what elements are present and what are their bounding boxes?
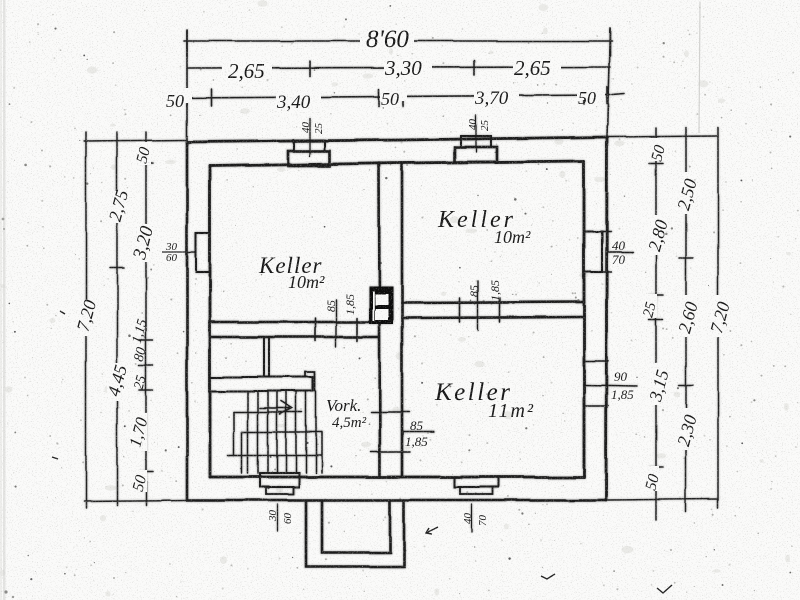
window W4 right outer wall xyxy=(584,232,602,272)
extension verticals left & right through dim rows xyxy=(186,30,188,142)
dim separator 40/70 right window xyxy=(607,251,633,253)
window W5 bottom wall right (40/70) xyxy=(454,477,499,487)
stair treads xyxy=(247,391,249,473)
wall: right outer face xyxy=(606,137,607,500)
stair direction arrow xyxy=(260,407,290,409)
door jambs in central wall near Vork xyxy=(371,411,410,413)
dim row2 line 2,65/3,30/2,65 xyxy=(187,67,610,68)
paper gaps behind dim texts xyxy=(77,28,726,492)
window W2 big box xyxy=(288,151,330,166)
window W1 in left outer wall xyxy=(196,233,210,272)
wall: partition between right rooms, top face xyxy=(402,302,584,303)
right extension line bottom xyxy=(608,499,718,500)
window W3 centerline xyxy=(475,115,477,152)
scanner edge streak xyxy=(3,0,6,600)
dim separator 40/70 bottom window xyxy=(471,504,473,532)
stair: landing bar xyxy=(210,377,313,391)
dim separator line for 85/1,85 (central door) xyxy=(402,431,434,433)
wall: top outer face xyxy=(187,137,607,142)
left dim col 50/3,20/... xyxy=(145,132,147,505)
window W3 top wall right: outer sill xyxy=(461,136,491,147)
wall: left inner face xyxy=(209,166,212,477)
right dim col 2,50/2,60/2,30 xyxy=(685,128,687,512)
dim row1 line 8'60 xyxy=(184,40,612,42)
stray scanner marks xyxy=(52,311,672,593)
wall: partition under left Keller room, top face xyxy=(210,321,371,324)
dim separator line for 85/1,85 label (left door) xyxy=(335,300,337,347)
left extension line bottom xyxy=(84,500,187,501)
window W2 top wall left: outer sill xyxy=(294,140,325,151)
door jamb ticks in left partition xyxy=(314,318,316,341)
bottom exterior stair well: inner U xyxy=(322,500,390,553)
wall: left outer face xyxy=(186,142,189,500)
wall: right inner face xyxy=(583,161,586,477)
window W2 centerline xyxy=(309,118,311,156)
chimney solid black xyxy=(369,286,393,324)
window W3 big box xyxy=(455,147,497,162)
right dim col 50/2,80/25/3,15/50 xyxy=(655,128,657,520)
faint fold streak top right xyxy=(699,2,700,133)
bottom exterior stair well: outer U xyxy=(306,500,404,567)
wall: bottom outer face xyxy=(187,499,606,502)
stair: landing bar end notch xyxy=(305,372,315,391)
wall: central vertical partition right face xyxy=(401,163,404,477)
door opening in right outer wall (90/1,85) xyxy=(584,360,608,362)
corner specks xyxy=(4,590,7,593)
wall: partition under left Keller room, bottom face xyxy=(210,336,379,339)
wall: top inner face xyxy=(210,161,584,166)
stair flight boundary lines xyxy=(234,411,302,413)
right dim col 7,20 xyxy=(717,128,719,508)
left dim col 2,75/4,45 xyxy=(116,132,118,505)
dim row3 line 50/3,40/50/3,70/50 xyxy=(178,95,610,98)
dim separator line for 85/1,85 label (right door) xyxy=(477,281,479,330)
door jamb ticks in right partition xyxy=(459,298,461,322)
right extension line top xyxy=(608,136,718,137)
stair: upper wall stub xyxy=(263,337,265,377)
wall: central vertical partition left face xyxy=(379,163,380,477)
dim separator 30/60 bottom steps xyxy=(276,504,278,531)
wall: bottom inner face xyxy=(210,476,584,479)
left dim col 7,20 xyxy=(85,132,87,508)
wall: partition between right rooms, bottom face xyxy=(402,317,584,318)
left extension line top xyxy=(84,140,187,141)
exterior steps through bottom wall (30/60) xyxy=(260,473,299,487)
